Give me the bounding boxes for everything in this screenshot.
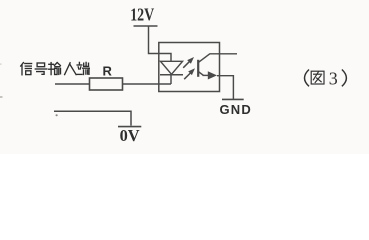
- ground bar 0V: [118, 126, 141, 128]
- optocoupler U1 package box: [159, 43, 220, 92]
- phototransistor Q1: [198, 54, 217, 80]
- label (图 3) figure caption: [305, 68, 347, 88]
- resistor R body: [90, 78, 123, 90]
- 信: [21, 63, 32, 75]
- svg-text:GND: GND: [220, 102, 253, 117]
- wire from 12V rail to LED anode: [149, 26, 172, 62]
- 输: [49, 63, 61, 75]
- 号: [35, 63, 47, 74]
- wire resistor to LED cathode: [123, 83, 172, 85]
- scan smudge left edge: [0, 64, 3, 98]
- label 12V supply: [130, 5, 154, 25]
- svg-text:R: R: [103, 64, 113, 79]
- ground bar GND: [222, 98, 244, 100]
- wire 0V rail: [54, 111, 131, 125]
- label 0V: [120, 126, 140, 145]
- 入: [65, 63, 77, 75]
- light emission arrow 2: [184, 68, 195, 79]
- label 信号输入端 (signal input terminal, hand-drawn glyphs): [21, 62, 90, 74]
- svg-text:3: 3: [329, 68, 338, 88]
- label R: [103, 64, 113, 79]
- label GND: [220, 102, 253, 117]
- wire input terminal to resistor: [55, 83, 90, 85]
- wire emitter to GND: [217, 76, 233, 99]
- 端: [77, 62, 89, 74]
- light emission arrow 1: [183, 57, 194, 68]
- wire collector output: [210, 53, 238, 55]
- scan speck: [56, 114, 58, 116]
- svg-text:12V: 12V: [130, 5, 154, 25]
- svg-text:0V: 0V: [120, 126, 140, 145]
- LED D1 anode-cathode (inside optocoupler): [160, 61, 183, 84]
- power rail bar 12V: [134, 25, 158, 27]
